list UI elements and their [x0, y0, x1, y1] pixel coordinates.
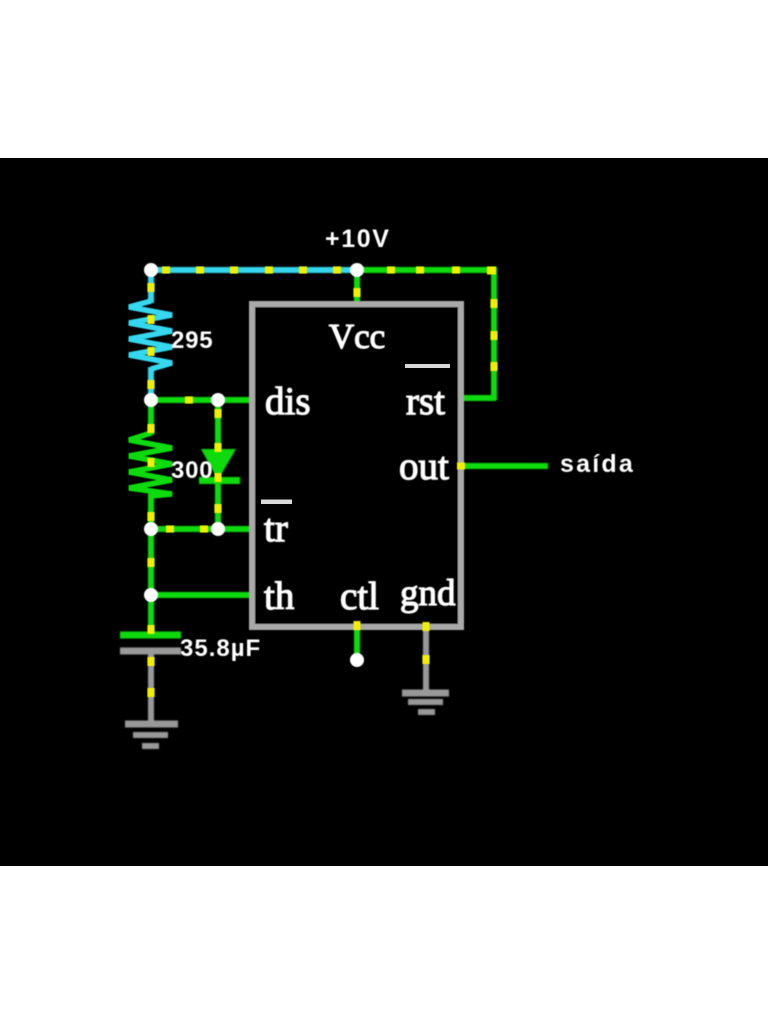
wire: th row from node D to chip [151, 592, 253, 598]
wire: node C down to node D [148, 529, 154, 595]
wire: Vcc pin stub [354, 268, 360, 303]
wire: node B down to resistor R2 [148, 398, 154, 435]
IC U1 555 timer body [252, 304, 461, 627]
wire: dis row from node B to chip [151, 397, 253, 403]
node B junction dot [144, 393, 158, 407]
ground symbol right [402, 690, 449, 697]
capacitor C1 bottom plate (gray) [120, 648, 181, 655]
overline of tr [261, 500, 292, 505]
capacitor C1 top plate (green) [120, 632, 181, 639]
svg-text:35.8µF: 35.8µF [180, 635, 261, 662]
diode D1 (green, pointing down) [201, 449, 236, 480]
node +10V junction dot [350, 263, 364, 277]
wire: node D down to capacitor C1 [148, 593, 154, 634]
overline of rst [405, 364, 450, 368]
wire: diode branch bottom to node C2 [215, 482, 221, 531]
resistor R2 300 (green zigzag) [129, 433, 172, 496]
current dot on ctl pin [354, 621, 361, 630]
wire: top rail right segment (green) +10V node to corner [357, 267, 497, 273]
current dots on diode branch [215, 409, 222, 513]
circuit canvas background [0, 158, 768, 866]
current dots on left cyan branch [148, 283, 155, 389]
svg-text:rst: rst [406, 380, 445, 423]
svg-text:tr: tr [264, 507, 288, 550]
node C2 junction dot [211, 522, 225, 536]
current dot on left lower branch [148, 558, 155, 567]
wire: top rail left segment (cyan) from node A to +10V node [151, 267, 357, 273]
wire: horizontal into rst pin [461, 395, 496, 401]
svg-text:Vcc: Vcc [329, 317, 385, 356]
current dot on Vcc pin stub [354, 288, 361, 297]
svg-text:300: 300 [171, 457, 213, 484]
svg-text:th: th [264, 575, 294, 618]
svg-text:dis: dis [265, 380, 311, 423]
ground symbol left [125, 721, 178, 728]
wire: tr row from node C to chip [151, 526, 253, 532]
wire: right vertical drop to rst [491, 268, 497, 400]
wire: cyan stub resistor R1 down to node B [148, 367, 154, 400]
svg-text:+10V: +10V [325, 225, 390, 253]
node B2 junction dot [211, 393, 225, 407]
current dots on gnd pin wire [423, 622, 430, 664]
current dots near capacitor C1 [148, 625, 155, 697]
wire: ctl pin stub down [354, 627, 360, 658]
svg-text:saída: saída [560, 450, 635, 478]
wire: gnd pin gray wire down [423, 627, 429, 691]
ctl open terminal dot [350, 653, 364, 667]
node C junction dot [144, 522, 158, 536]
node A junction dot [144, 263, 158, 277]
wire: cyan stub node A down to resistor R1 [148, 268, 154, 303]
current dots on top green rail and right drop [387, 267, 498, 372]
svg-text:ctl: ctl [340, 575, 379, 618]
current dots on tr row [166, 526, 208, 533]
node D junction dot [144, 588, 158, 602]
current dot at out pin [457, 463, 465, 470]
svg-text:out: out [399, 445, 449, 488]
svg-text:295: 295 [171, 327, 213, 354]
wire: gray wire capacitor to ground [148, 652, 154, 722]
svg-text:gnd: gnd [400, 573, 456, 614]
current dots on dis row [185, 397, 193, 404]
wire: diode branch top from node B2 [215, 398, 221, 452]
wire: resistor R2 down to node C [148, 493, 154, 529]
current dots on R2 branch [148, 424, 155, 521]
current dots on top cyan wire [162, 267, 341, 274]
wire: out pin to saída [461, 463, 548, 469]
resistor R1 295 (cyan zigzag) [129, 301, 172, 369]
